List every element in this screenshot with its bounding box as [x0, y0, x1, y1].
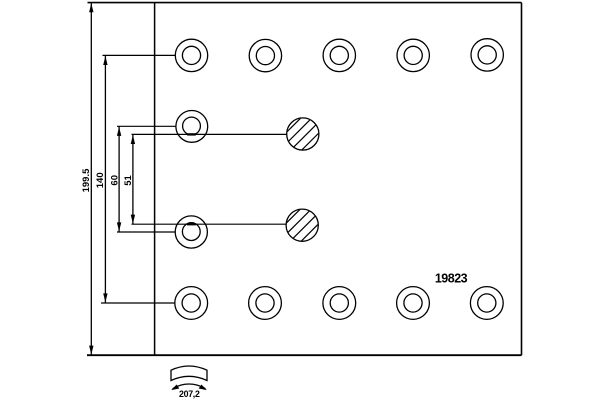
dimension line 199.5: [90, 3, 92, 356]
hole D4 row4: [397, 287, 430, 320]
lining top edge (extended left as extension line): [88, 2, 522, 4]
section symbol band: [171, 366, 207, 381]
svg-text:199.5: 199.5: [81, 168, 92, 192]
dimension line 51: [132, 134, 134, 224]
width arc arrow 207,2: [173, 384, 206, 389]
center dash in hole B1: [187, 133, 196, 135]
svg-text:207,2: 207,2: [179, 389, 200, 399]
lining bottom edge (extended left as extension line): [87, 354, 522, 356]
hole D2 row4: [249, 287, 282, 320]
hole D1 row4: [175, 287, 208, 320]
arrowheads dimension 140: [103, 56, 107, 65]
svg-text:19823: 19823: [435, 272, 468, 286]
hole B1 row2: [176, 111, 208, 143]
leader row1 hole A1: [103, 54, 176, 56]
leader hatched hole H1: [132, 133, 288, 135]
svg-text:51: 51: [123, 175, 134, 186]
dimension line 140: [104, 55, 106, 303]
leader row3 hole C1: [117, 231, 175, 233]
leader row4 hole D1: [101, 302, 175, 304]
hole D3 row4: [323, 287, 356, 320]
hole A1 row1: [175, 39, 207, 71]
svg-text:60: 60: [109, 175, 120, 186]
lining left edge: [154, 3, 156, 356]
svg-text:140: 140: [95, 172, 106, 188]
arrowheads dimension 60: [117, 127, 121, 136]
hatched hole H2: [272, 197, 345, 270]
hole A2 row1: [249, 39, 281, 71]
hole C1 row3: [175, 216, 207, 248]
leader hatched hole H2: [132, 223, 287, 225]
hole A3 row1: [323, 39, 355, 71]
hole D5 row4: [470, 287, 503, 320]
hole A4 row1: [397, 39, 429, 71]
dimension line 60: [118, 126, 120, 232]
center dash in hole C1: [187, 223, 196, 225]
lining right edge: [521, 3, 523, 356]
arrowheads dimension 51: [131, 135, 135, 144]
leader row2 hole B1: [117, 125, 176, 127]
hatched hole H1: [273, 106, 346, 179]
arrowheads dimension 199.5: [89, 3, 135, 354]
hole A5 row1: [471, 39, 503, 71]
